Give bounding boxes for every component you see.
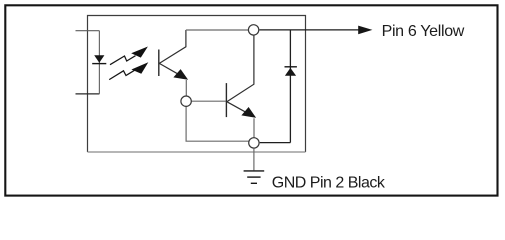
svg-text:GND Pin 2 Black: GND Pin 2 Black [272, 175, 386, 192]
phototransistor Q1 base bar [158, 50, 160, 77]
wire: node A to Q2 base [191, 100, 226, 102]
node A [181, 96, 191, 106]
wire: output to pin 6 [259, 29, 358, 31]
LED D1 [92, 55, 106, 63]
ground [244, 171, 265, 183]
wire: LED anode lead [76, 30, 100, 32]
phototransistor Q1 emitter [159, 63, 188, 79]
optocoupler package box [88, 16, 306, 153]
diode D2 branch wire [289, 30, 291, 143]
wire: node B to ground [253, 149, 255, 171]
wire: Q2 emitter to node B [253, 118, 255, 138]
light arrow lower [109, 62, 148, 79]
wire: LED branch [98, 31, 100, 94]
light arrow upper [110, 47, 148, 65]
wire: node B to diode branch [260, 142, 291, 144]
node top (pin 6 junction) [248, 25, 258, 35]
phototransistor Q1 collector [159, 30, 186, 63]
transistor Q2 base bar [225, 83, 227, 117]
transistor Q2 collector [227, 35, 254, 101]
wire: node A down and right to node B [186, 106, 252, 141]
diode D2 [285, 67, 297, 76]
wire: LED cathode lead [76, 93, 100, 95]
wire: top rail to node [186, 29, 250, 31]
wire: Q1 emitter to node A [185, 80, 187, 96]
transistor Q2 emitter [227, 102, 256, 118]
border frame [5, 5, 497, 195]
svg-text:Pin 6 Yellow: Pin 6 Yellow [382, 23, 465, 40]
arrowhead pin 6 [358, 26, 372, 35]
node B [249, 138, 259, 148]
